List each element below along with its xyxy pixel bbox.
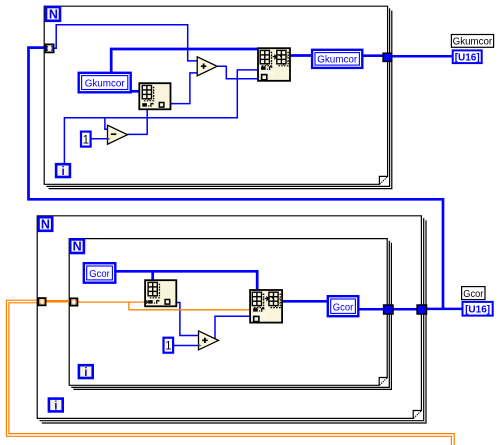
- wire: Gkumcor local up to array rail into replace node (thick blue): [111, 49, 258, 73]
- for-loop 1 shadow lines: [46, 8, 389, 186]
- count terminal N (top loop): [46, 7, 60, 21]
- add function (bottom loop): [199, 331, 219, 350]
- iteration terminal i (inner bottom loop): [79, 365, 93, 379]
- svg-text:i: i: [54, 400, 57, 412]
- wire: 2D array (orange double line) outer run: [6, 300, 451, 445]
- replace array subset node U4 (bottom loop): [250, 290, 282, 323]
- local variable Gcor (write, bottom loop): [328, 296, 359, 316]
- local variable Gkumcor (read, top loop): [79, 73, 131, 93]
- wire: add output to replace element input (thin blue): [215, 316, 250, 338]
- wire: Gcor 1D array feed from bottom loop up to top loop input tunnel (thick blue): [29, 48, 444, 309]
- input tunnel (top loop, left): [46, 44, 54, 52]
- for-loop 2 (bottom outer) border: [37, 216, 421, 419]
- wire: Gcor write local to inner tunnel (thick blue): [359, 308, 383, 311]
- wire: output tunnel to Gkumcor indicator (thick blue): [392, 55, 452, 58]
- svg-text:Gkumcor: Gkumcor: [317, 55, 358, 66]
- svg-text:N: N: [41, 218, 50, 232]
- wire: constant 1 to add bottom input (thin blue): [173, 345, 198, 347]
- for-loop 3 resize corner fold: [380, 378, 388, 386]
- wire: index array output to add bottom input (thin blue): [170, 73, 197, 104]
- svg-text:Gkumcor: Gkumcor: [85, 79, 126, 90]
- wire: Gkumcor write local to output tunnel (thick blue): [363, 54, 383, 57]
- for-loop 1 resize corner fold: [380, 177, 388, 185]
- index array node U3 (bottom loop): [145, 280, 176, 306]
- wire: i terminal rail to replace index input (thin blue): [64, 70, 258, 164]
- indicator Gcor [U16]: [462, 287, 493, 316]
- indicator Gkumcor [U16]: [451, 35, 493, 64]
- wire: Gcor local rail to replace node (thick blue): [116, 271, 258, 290]
- iteration terminal i (outer bottom loop): [49, 399, 63, 413]
- arrowhead glyph at index node input: [146, 300, 150, 305]
- svg-text:Gcor: Gcor: [333, 302, 354, 313]
- svg-text:Gcor: Gcor: [463, 289, 483, 300]
- subtract function (top loop): [108, 125, 128, 144]
- svg-text:i: i: [84, 367, 87, 379]
- svg-text:1: 1: [83, 134, 89, 146]
- index array node U1 (top loop): [139, 83, 170, 109]
- wire: orange scalar into index node and down to replace index input: [78, 302, 251, 310]
- local variable Gcor (read, bottom loop): [84, 263, 116, 283]
- for-loop 2 resize corner fold: [414, 411, 422, 419]
- svg-text:Gkumcor: Gkumcor: [453, 37, 493, 48]
- svg-text:[U16]: [U16]: [465, 305, 490, 316]
- wire: replace output to Gkumcor write local (thick blue): [290, 54, 312, 57]
- wire: orange 1D between left tunnels: [46, 300, 70, 303]
- numeric constant 1 (bottom loop): [164, 338, 174, 353]
- for-loop 3 shadow lines: [71, 241, 389, 388]
- wire: rail drop to subtract top input (thin blue): [105, 118, 108, 130]
- output tunnel (outer bottom loop, blue): [417, 305, 426, 314]
- wire: 2D array (orange double line) inner run: [9, 303, 454, 445]
- wire: rail drop into index array node (thick blue): [151, 271, 154, 281]
- for-loop 3 (bottom inner) border: [69, 239, 387, 386]
- for-loop 2 shadow lines: [40, 218, 424, 421]
- count terminal N (inner bottom loop): [70, 239, 84, 253]
- wire: subtract output up into index array index input (thin blue): [127, 110, 147, 135]
- output tunnel (inner bottom loop, blue): [384, 305, 393, 314]
- wire: add output to replace element input (thin blue): [217, 66, 258, 79]
- input tunnel (outer bottom loop, orange): [38, 298, 45, 305]
- for-loop 1 (top) border: [44, 6, 387, 184]
- iteration terminal i (top loop): [56, 164, 70, 178]
- count terminal N (outer bottom loop): [39, 217, 53, 231]
- svg-text:N: N: [73, 240, 82, 254]
- wire: inner tunnel to outer tunnel (thick blue): [393, 308, 417, 311]
- svg-text:Gcor: Gcor: [89, 269, 110, 280]
- output tunnel (top loop, right): [383, 53, 392, 61]
- replace array subset node U2 (top loop): [258, 48, 290, 81]
- svg-text:N: N: [49, 7, 58, 21]
- svg-text:i: i: [61, 166, 64, 178]
- wire: tunnel element to add top input (thin blue): [54, 25, 197, 61]
- wire: outer tunnel to Gcor indicator (thick blue): [427, 308, 462, 311]
- wire: Gkumcor local right to index array node (thick blue): [131, 90, 140, 93]
- add function (top loop): [197, 57, 217, 76]
- wire: replace output to Gcor write local (thick blue): [282, 300, 327, 303]
- svg-text:1: 1: [165, 341, 171, 353]
- local variable Gkumcor (write, top loop): [312, 50, 362, 68]
- wire: index array output to add top input (thin blue): [176, 303, 198, 336]
- wire: constant 1 to subtract bottom input (thin blue): [91, 138, 108, 140]
- input tunnel (inner bottom loop, orange): [70, 298, 77, 305]
- numeric constant 1 (top loop): [81, 132, 91, 147]
- svg-text:[U16]: [U16]: [455, 53, 480, 64]
